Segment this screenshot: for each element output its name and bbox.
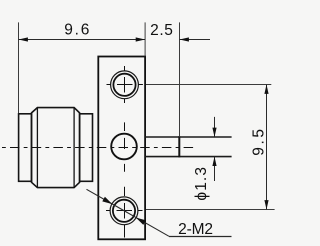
center pin contact top edge (continues as extension line) xyxy=(145,136,232,138)
bottom hole horizontal centerline xyxy=(106,210,143,212)
center hole vertical centerline xyxy=(124,122,126,171)
top mounting hole M2 inner circle xyxy=(113,74,135,96)
dim 9.5 bottom extension line xyxy=(146,209,275,211)
svg-text:9.5: 9.5 xyxy=(250,129,267,156)
front collar (shoulder before flange) xyxy=(80,114,93,182)
hex flat line right xyxy=(73,108,75,188)
bottom mounting hole M2 outer circle xyxy=(110,197,138,225)
dim phi1.3 upper dimension line xyxy=(214,117,216,137)
svg-text:2-M2: 2-M2 xyxy=(178,221,213,238)
dim 9.5 bottom arrow xyxy=(264,200,268,209)
dim phi1.3 lower dimension line xyxy=(214,157,216,181)
top mounting hole M2 outer circle xyxy=(111,71,139,99)
center pin contact end face xyxy=(178,136,180,157)
svg-text:ϕ1.3: ϕ1.3 xyxy=(193,167,210,201)
svg-text:2.5: 2.5 xyxy=(150,22,173,39)
hex coupling body outline with chamfered corners xyxy=(32,108,80,188)
dim 2.5 arrow xyxy=(180,37,189,41)
leader underline xyxy=(169,236,232,238)
bottom hole vertical centerline xyxy=(124,187,126,238)
dim 2.5 right extension line xyxy=(179,22,181,136)
dim 2.5 arrow tail line xyxy=(180,39,211,41)
bottom mounting hole M2 inner circle xyxy=(113,200,135,222)
dim 9.5 dimension line xyxy=(266,85,268,210)
flange plate xyxy=(98,57,145,240)
rear collar (left ring of connector body) xyxy=(19,114,32,182)
top hole horizontal centerline xyxy=(107,84,143,86)
leader arrow upper-left (points at hole edge) xyxy=(102,197,112,204)
dim phi1.3 up arrow xyxy=(212,157,216,166)
dim 9.6/2.5 shared extension line (plate face) xyxy=(144,22,146,56)
center hole xyxy=(111,134,137,160)
hex flat line left xyxy=(36,108,38,188)
top hole vertical centerline xyxy=(124,66,126,103)
dim 9.6 right arrow xyxy=(136,37,145,41)
center pin contact bottom edge (continues as extension line) xyxy=(145,156,232,158)
dim 9.5 top arrow xyxy=(264,85,268,94)
dim 9.6 dimension line xyxy=(19,39,146,41)
leader line 2-M2 xyxy=(87,189,170,236)
dim 9.6 left extension line xyxy=(18,22,20,113)
dim 9.5 top extension line xyxy=(146,84,271,86)
dim phi1.3 down arrow xyxy=(212,128,216,137)
leader arrow lower-right (points at hole edge) xyxy=(136,218,146,225)
dim 9.6 left arrow xyxy=(19,37,28,41)
main horizontal centerline (connector axis) xyxy=(2,147,197,149)
svg-text:9.6: 9.6 xyxy=(64,21,89,38)
